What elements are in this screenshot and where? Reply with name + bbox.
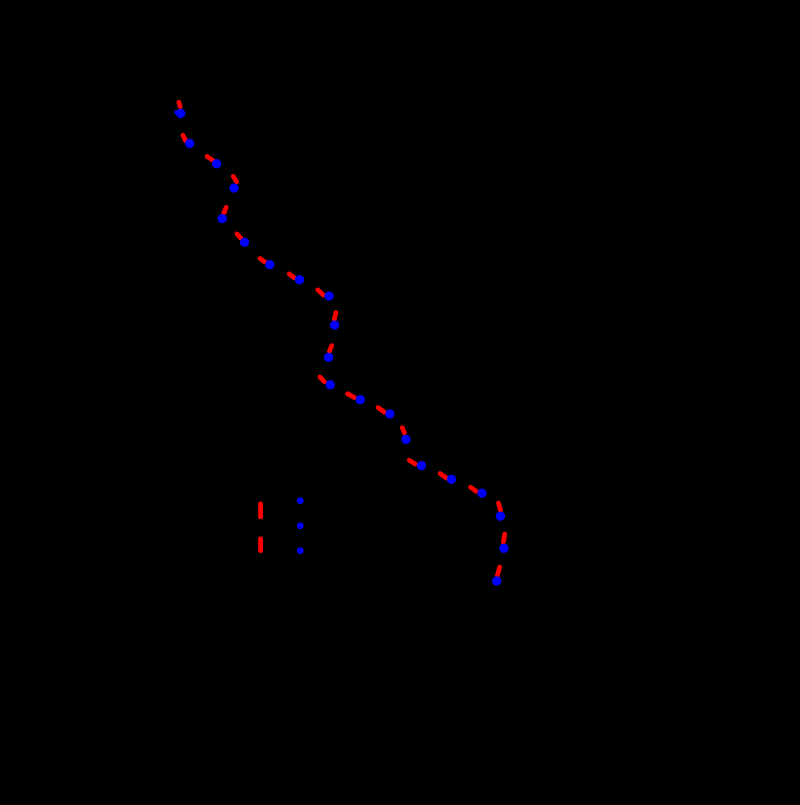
blue data point 8 <box>295 275 304 284</box>
red dash segment 19 <box>499 503 501 510</box>
blue data point 3 <box>212 159 221 168</box>
blue data point 6 <box>240 238 249 247</box>
red dash segment 2 <box>183 135 186 141</box>
blue data point 17 <box>447 475 456 484</box>
red dash segment 21 <box>497 567 499 576</box>
blue data point 21 <box>492 576 501 585</box>
legend blue point 2 <box>297 522 304 529</box>
red dash segment 11 <box>329 346 331 352</box>
blue data point 16 <box>417 461 426 470</box>
red dash segment 16 <box>409 460 415 464</box>
red dash segment 12 <box>320 377 324 382</box>
red dash segment 5 <box>224 207 226 212</box>
red dash segment 4 <box>233 176 237 182</box>
blue data point 10 <box>330 320 339 329</box>
red dash segment 9 <box>318 290 324 295</box>
red dash segment 18 <box>471 487 477 491</box>
legend red dash 2 <box>258 539 263 551</box>
legend blue point 3 <box>297 547 304 554</box>
red dash segment 1 <box>179 102 180 106</box>
blue data point 5 <box>218 214 227 223</box>
blue data point 7 <box>265 260 274 269</box>
blue data point 9 <box>324 291 333 300</box>
legend red dash 1 <box>258 504 263 517</box>
blue data point 15 <box>401 435 410 444</box>
red dash segment 10 <box>334 313 336 320</box>
blue data point 18 <box>477 489 486 498</box>
blue data point 14 <box>385 409 394 418</box>
blue data point 19 <box>496 511 505 520</box>
red dash segment 15 <box>402 428 404 433</box>
red dash segment 3 <box>207 156 214 160</box>
red dash segment 13 <box>348 394 355 398</box>
red dash segment 7 <box>260 259 265 262</box>
blue data point 2 <box>185 139 194 148</box>
blue data point 11 <box>324 353 333 362</box>
red dash segment 17 <box>440 474 447 479</box>
blue data point 4 <box>229 183 238 192</box>
red dash segment 6 <box>237 234 242 239</box>
blue data point 12 <box>326 380 335 389</box>
red dash segment 8 <box>289 274 294 278</box>
small blue point behind point 1 <box>174 110 178 114</box>
red dash segment 14 <box>378 408 385 413</box>
legend blue point 1 <box>297 497 304 504</box>
blue data point 1 <box>176 109 185 118</box>
blue data point 13 <box>356 395 365 404</box>
red dash segment 20 <box>503 534 504 542</box>
blue data point 20 <box>499 544 508 553</box>
